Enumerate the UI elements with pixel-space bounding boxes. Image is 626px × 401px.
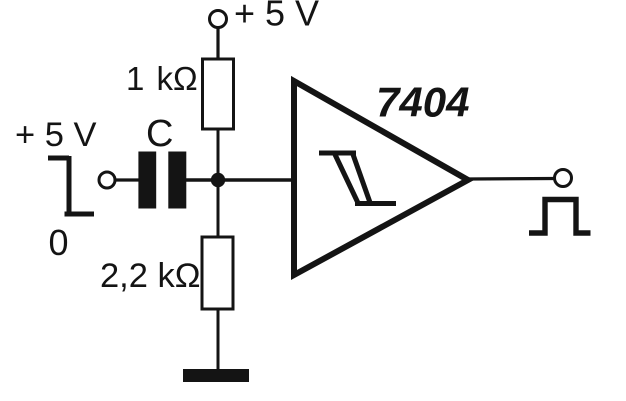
wire R2 to ground [217, 309, 220, 370]
output pulse waveform [529, 200, 591, 234]
svg-text:7404: 7404 [376, 79, 469, 126]
terminal +5V top [210, 11, 227, 28]
svg-text:2,2 kΩ: 2,2 kΩ [100, 257, 201, 295]
node A junction dot [211, 173, 225, 187]
svg-text:1 kΩ: 1 kΩ [126, 60, 198, 97]
resistor R2 2.2k body [202, 237, 233, 309]
wire input terminal to C [116, 178, 140, 181]
wire C to node A [185, 178, 294, 181]
schmitt trigger hysteresis symbol [319, 153, 396, 204]
ground [183, 369, 249, 382]
wire node A to R2 [217, 180, 220, 238]
terminal output [555, 170, 572, 187]
op-amp U1 7404 inverter triangle [294, 81, 468, 275]
svg-text:+ 5 V: + 5 V [15, 116, 97, 154]
wire top terminal to R1 [216, 28, 219, 60]
wire R1 to node A [217, 129, 220, 180]
capacitor C plate left [138, 152, 156, 209]
resistor R1 1k body [203, 59, 234, 129]
terminal input [99, 172, 115, 188]
wire U1 output to terminal [468, 177, 555, 181]
svg-text:C: C [146, 113, 173, 155]
capacitor C plate right [168, 152, 186, 209]
input step waveform [48, 156, 94, 214]
svg-text:0: 0 [49, 222, 69, 263]
svg-text:+ 5 V: + 5 V [234, 0, 319, 34]
